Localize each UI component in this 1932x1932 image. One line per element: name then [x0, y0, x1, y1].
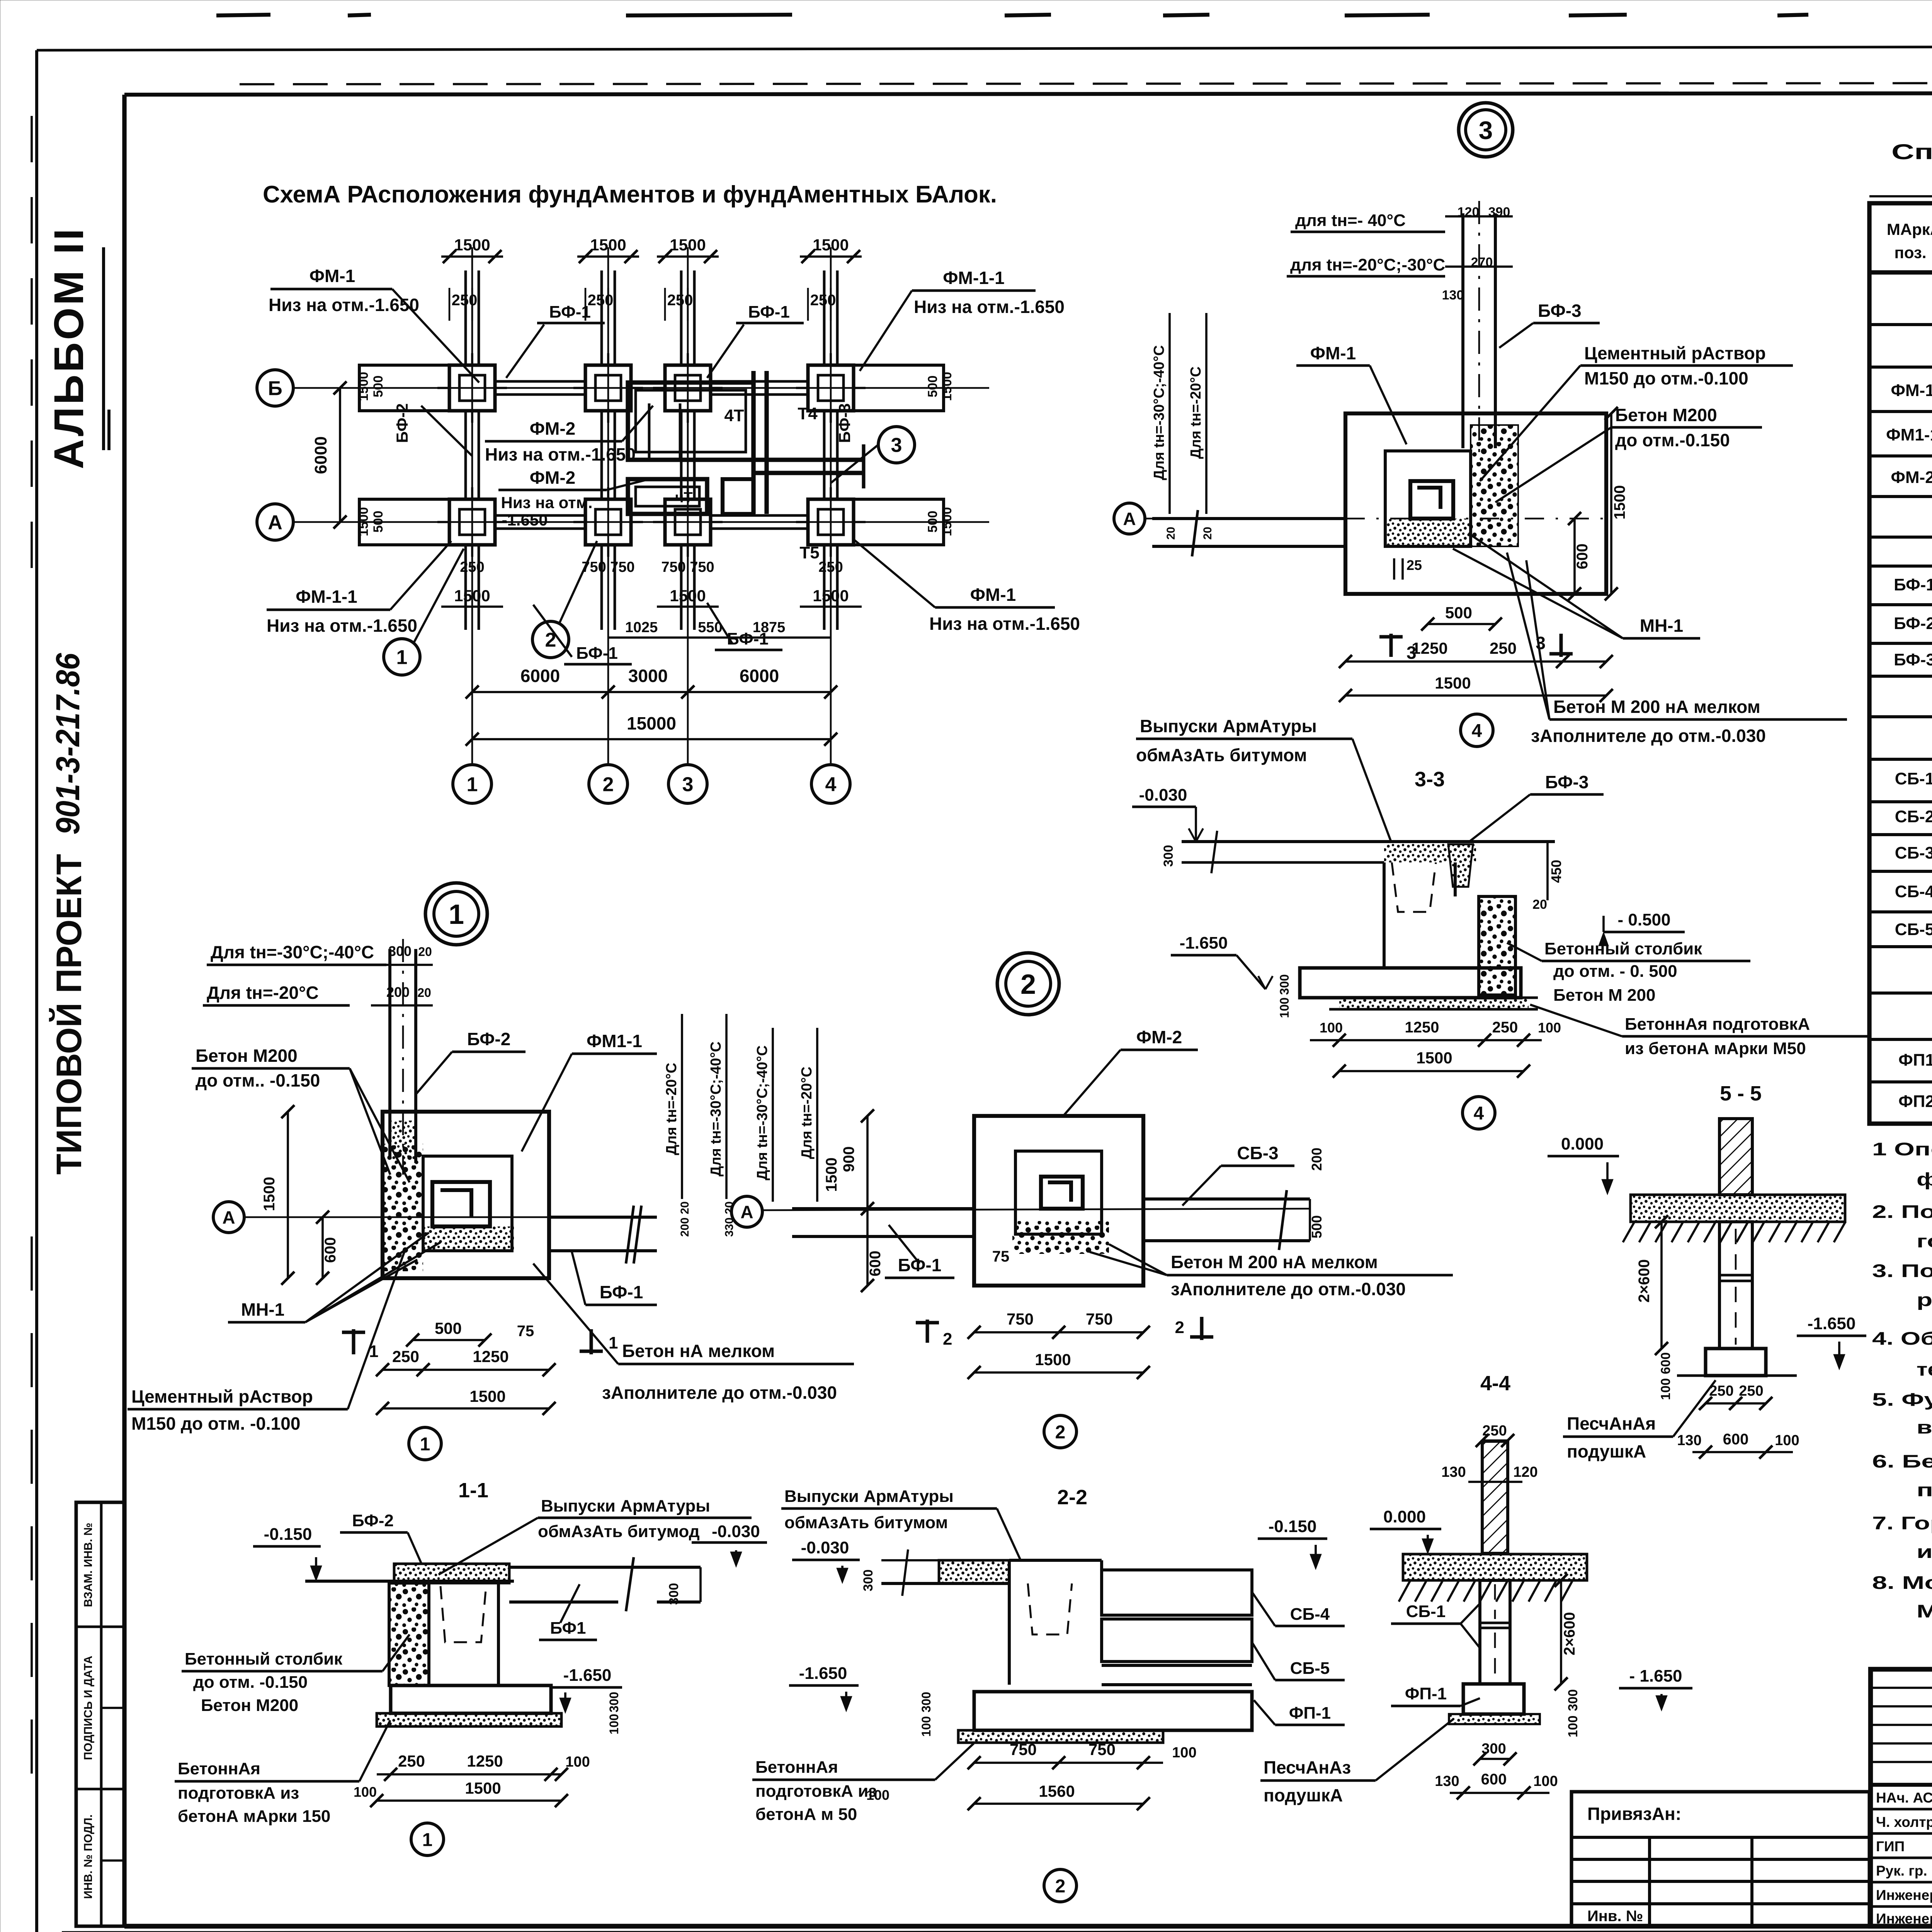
- svg-text:1250: 1250: [473, 1347, 509, 1366]
- svg-text:зАполнителе до отм.-0.030: зАполнителе до отм.-0.030: [1531, 726, 1766, 746]
- svg-text:20: 20: [1165, 527, 1177, 539]
- plan vertical axis 2: [607, 247, 609, 765]
- svg-text:Бетон М200: Бетон М200: [196, 1046, 298, 1066]
- svg-text:БФ-3: БФ-3: [1538, 301, 1582, 321]
- svg-text:Цементный рАствор: Цементный рАствор: [131, 1386, 313, 1406]
- svg-text:15000: 15000: [627, 713, 676, 733]
- svg-text:-0.150: -0.150: [264, 1525, 312, 1544]
- spec table horizontal row lines: [1869, 323, 1932, 326]
- svg-text:БетоннАя: БетоннАя: [755, 1758, 838, 1777]
- svg-text:БФ-1: БФ-1: [898, 1255, 942, 1275]
- svg-text:БФ-1: БФ-1: [549, 303, 591, 321]
- detail 3 section mark 3 left: [1389, 634, 1393, 657]
- section 3-3 beam pocket dashed: [1392, 862, 1436, 912]
- svg-text:Т5: Т5: [799, 543, 819, 562]
- svg-text:5. ФундАментные бАлки: 5. ФундАментные бАлки уклАдывАть нА слой…: [1872, 1389, 1932, 1410]
- svg-text:7. ГоризснтАльную гидроизо: 7. ГоризснтАльную гидроизоляцию стен вып…: [1872, 1513, 1932, 1533]
- plan foundation ФМ bottom row axis 2: [585, 499, 631, 545]
- svg-text:-0.030: -0.030: [801, 1538, 849, 1557]
- svg-text:Бетон М 200 нА мелком: Бетон М 200 нА мелком: [1553, 697, 1760, 717]
- svg-text:250: 250: [1490, 639, 1517, 657]
- plan vertical axis 3: [687, 247, 689, 765]
- scan artifact dashes along top edge: [216, 15, 270, 15]
- svg-text:200: 200: [1309, 1148, 1325, 1171]
- svg-text:130: 130: [1677, 1432, 1701, 1449]
- svg-text:3: 3: [682, 774, 694, 796]
- svg-text:до отм.-0.150: до отм.-0.150: [1615, 430, 1730, 450]
- detail 2 dimensions left 900 1500: [866, 1116, 869, 1286]
- title block left grid upper: [1871, 1783, 1932, 1787]
- svg-text:БФ-2: БФ-2: [467, 1029, 511, 1049]
- svg-text:ФМ-1: ФМ-1: [1891, 381, 1932, 400]
- section 5-5 footing: [1706, 1349, 1766, 1376]
- svg-text:4Т: 4Т: [724, 406, 744, 425]
- section 1-1 top speckled band: [394, 1564, 509, 1583]
- svg-text:1500: 1500: [940, 507, 954, 536]
- svg-text:подготовкА из: подготовкА из: [178, 1784, 299, 1803]
- detail 1 dimension 250 1250: [383, 1369, 549, 1371]
- svg-text:Бетон М200: Бетон М200: [201, 1696, 298, 1715]
- detail 1 dimension 1500: [383, 1407, 549, 1410]
- svg-text:1500: 1500: [940, 372, 954, 401]
- section 1-1 dimension 1500: [377, 1799, 561, 1802]
- detail 1 left dimension 1500: [287, 1112, 289, 1278]
- svg-text:ФМ-2: ФМ-2: [1891, 468, 1932, 487]
- detail 1 right rotated temperature labels: [681, 1014, 683, 1199]
- svg-text:СБ-4: СБ-4: [1290, 1605, 1330, 1624]
- svg-text:-0.030: -0.030: [712, 1522, 760, 1541]
- svg-text:1875: 1875: [753, 619, 786, 636]
- section 5-5 column hatched top: [1719, 1119, 1752, 1195]
- svg-text:200 20: 200 20: [679, 1201, 691, 1237]
- svg-text:2×600: 2×600: [1636, 1259, 1653, 1303]
- svg-text:Для tн=-30°С;-40°С: Для tн=-30°С;-40°С: [211, 942, 374, 962]
- svg-text:реть уплотненного пескА: реть уплотненного пескА h=100 мм: [1917, 1289, 1932, 1310]
- svg-text:Бетон М 200 нА мелком: Бетон М 200 нА мелком: [1171, 1252, 1378, 1272]
- svg-text:-1.650: -1.650: [1808, 1314, 1856, 1333]
- svg-text:500: 500: [371, 511, 386, 533]
- svg-text:А: А: [1123, 509, 1136, 529]
- title block name rows: [1871, 1808, 1932, 1811]
- svg-text:2: 2: [1055, 1422, 1066, 1442]
- svg-text:Для tн=-20°С: Для tн=-20°С: [663, 1063, 680, 1155]
- svg-text:БФ-2: БФ-2: [352, 1511, 394, 1530]
- svg-text:1500: 1500: [356, 372, 371, 401]
- spec table header row texts: [1869, 270, 1932, 274]
- svg-text:270: 270: [1471, 255, 1493, 270]
- svg-text:1500: 1500: [469, 1387, 505, 1405]
- section 5-5 dimension 130 600 100: [1692, 1451, 1793, 1453]
- svg-text:СБ-5: СБ-5: [1290, 1659, 1330, 1678]
- svg-text:М 100. Объем бетонА: М 100. Объем бетонА нА монолитные учАстк…: [1917, 1601, 1932, 1621]
- svg-text:2: 2: [1055, 1876, 1066, 1896]
- svg-text:4: 4: [825, 774, 837, 796]
- svg-text:НАч. АСО: НАч. АСО: [1876, 1790, 1932, 1806]
- svg-text:Для tн=-30°С;-40°С: Для tн=-30°С;-40°С: [1151, 345, 1167, 480]
- detail 3 leader circle 4 bottom: [1461, 714, 1493, 747]
- svg-text:СБ-1: СБ-1: [1406, 1602, 1446, 1621]
- svg-text:600: 600: [322, 1237, 339, 1263]
- svg-text:20: 20: [417, 986, 431, 1000]
- svg-text:Выпуски АрмАтуры: Выпуски АрмАтуры: [784, 1487, 954, 1506]
- svg-text:300: 300: [607, 1692, 621, 1712]
- svg-text:подушкА: подушкА: [1567, 1441, 1646, 1461]
- section 2-2 dimension 1500: [974, 1803, 1143, 1805]
- svg-text:3: 3: [891, 434, 902, 457]
- section 3-3 bottom circle 4: [1463, 1097, 1495, 1129]
- svg-text:Бетон М 200: Бетон М 200: [1553, 986, 1655, 1005]
- svg-text:250: 250: [452, 292, 478, 309]
- svg-text:20: 20: [418, 945, 432, 959]
- section 4-4 footing: [1463, 1684, 1524, 1714]
- svg-text:СхемА РАсположения фундАмен: СхемА РАсположения фундАментов и фундАме…: [263, 181, 997, 208]
- svg-text:Выпуски АрмАтуры: Выпуски АрмАтуры: [1140, 716, 1317, 736]
- svg-text:120: 120: [1458, 205, 1480, 219]
- section 2-2 dimension chain 750 750 100: [974, 1762, 1163, 1764]
- svg-text:0.000: 0.000: [1561, 1134, 1604, 1153]
- plan main dimension chain 6000 3000 6000: [472, 691, 831, 693]
- detail 3 right dimension 600: [1573, 519, 1576, 594]
- plan foundation ФМ bottom row axis 4: [808, 499, 854, 545]
- svg-text:бетонА м 50: бетонА м 50: [755, 1805, 857, 1824]
- plan foundation beams БФ along axis А: [495, 514, 585, 517]
- svg-text:ИНВ. № ПОДЛ.: ИНВ. № ПОДЛ.: [82, 1815, 95, 1899]
- svg-text:БетоннАя: БетоннАя: [178, 1759, 260, 1778]
- svg-text:600: 600: [1723, 1431, 1749, 1448]
- svg-text:БФ-1: БФ-1: [600, 1282, 643, 1302]
- svg-text:750: 750: [1086, 1310, 1113, 1328]
- plan bottom axis circle 2: [589, 765, 628, 803]
- svg-text:1560: 1560: [1039, 1782, 1075, 1800]
- plan dimension 6000 left rotated: [339, 388, 341, 522]
- svg-text:Выпуски АрмАтуры: Выпуски АрмАтуры: [541, 1497, 710, 1515]
- plan foundation beams БФ along axis Б: [495, 380, 585, 383]
- svg-text:ФМ1-1: ФМ1-1: [587, 1031, 642, 1051]
- section 3-3 dimension 1500: [1339, 1070, 1524, 1072]
- svg-text:БФ-3: БФ-3: [835, 403, 854, 443]
- svg-text:500: 500: [1445, 604, 1472, 622]
- plan foundation ФМ bottom row axis 3: [665, 499, 711, 545]
- svg-text:901-3-217.86: 901-3-217.86: [49, 653, 87, 835]
- svg-text:1250: 1250: [1412, 639, 1447, 657]
- svg-text:6000: 6000: [740, 666, 779, 686]
- svg-text:Для tн=-20°С: Для tн=-20°С: [799, 1066, 815, 1159]
- detail 2 beam СБ-3 right: [1143, 1197, 1310, 1201]
- svg-text:А: А: [268, 512, 282, 534]
- svg-text:3: 3: [1479, 116, 1493, 145]
- svg-text:до отм.. -0.150: до отм.. -0.150: [196, 1070, 320, 1090]
- svg-text:А: А: [740, 1202, 753, 1222]
- plan foundation ФМ top row axis 3: [665, 365, 711, 411]
- svg-text:4: 4: [1474, 1103, 1484, 1124]
- detail 2 axis А circle: [731, 1196, 762, 1227]
- detail 1 axis line: [244, 1216, 653, 1218]
- svg-text:750: 750: [1010, 1740, 1037, 1759]
- svg-text:1500: 1500: [1611, 485, 1628, 520]
- svg-text:3-3: 3-3: [1415, 768, 1445, 791]
- svg-text:6000: 6000: [311, 436, 330, 474]
- svg-text:100: 100: [1320, 1020, 1343, 1036]
- svg-text:1500: 1500: [454, 236, 490, 254]
- svg-text:ПесчАнАя: ПесчАнАя: [1567, 1413, 1656, 1434]
- svg-text:300: 300: [1566, 1689, 1580, 1711]
- detail 1 beam БФ-2 vertical: [388, 949, 391, 1159]
- svg-text:ФМ1-1: ФМ1-1: [1886, 425, 1932, 444]
- svg-text:450: 450: [1548, 860, 1564, 883]
- svg-text:для tн=- 40°С: для tн=- 40°С: [1295, 211, 1406, 230]
- svg-text:300: 300: [919, 1692, 933, 1712]
- plan top dimension 1500 labels: [441, 255, 503, 258]
- svg-text:ПривязАн:: ПривязАн:: [1587, 1804, 1681, 1824]
- svg-text:БФ-2: БФ-2: [393, 403, 411, 443]
- svg-text:100: 100: [1277, 997, 1291, 1018]
- plan vertical axis 1: [471, 247, 473, 765]
- plan axis circle Б: [257, 370, 293, 406]
- svg-text:8. Монолитные учАстки: 8. Монолитные учАстки между блокАми выпо…: [1872, 1572, 1932, 1593]
- svg-text:600: 600: [867, 1251, 884, 1277]
- svg-text:1: 1: [369, 1342, 378, 1361]
- svg-text:250: 250: [818, 559, 843, 575]
- svg-text:А: А: [222, 1207, 235, 1228]
- svg-text:2-2: 2-2: [1057, 1486, 1087, 1509]
- plan leader circle 3: [878, 427, 915, 463]
- svg-text:Т4: Т4: [798, 404, 818, 423]
- svg-text:М150 до отм. -0.100: М150 до отм. -0.100: [131, 1413, 300, 1434]
- svg-text:250: 250: [392, 1347, 419, 1366]
- svg-text:СБ-2: СБ-2: [1895, 807, 1932, 826]
- detail 3 dimension 1500 bottom: [1345, 694, 1606, 697]
- svg-text:для tн=-20°С;-30°С: для tн=-20°С;-30°С: [1290, 255, 1445, 274]
- section 4-4 dimension 2x600: [1560, 1580, 1562, 1684]
- svg-text:250: 250: [667, 292, 693, 309]
- svg-text:Бетонный столбик: Бетонный столбик: [185, 1650, 343, 1668]
- plan foundation ФМ bottom row axis 1: [449, 499, 495, 545]
- svg-text:1: 1: [467, 774, 478, 796]
- svg-text:обмАзАть битумод: обмАзАть битумод: [538, 1522, 700, 1541]
- svg-text:из цементного р-рА: из цементного р-рА состАвА 1:2, толщиной…: [1917, 1541, 1932, 1562]
- svg-text:2: 2: [1020, 969, 1036, 1000]
- svg-text:ГИП: ГИП: [1876, 1838, 1905, 1854]
- detail 2 dimension 1500: [974, 1371, 1143, 1374]
- plan bottom axis circle 4: [811, 765, 850, 803]
- svg-text:250: 250: [1739, 1383, 1763, 1399]
- detail 2 marker circle: [997, 953, 1059, 1015]
- svg-text:зАполнителе до отм.-0.030: зАполнителе до отм.-0.030: [1171, 1279, 1406, 1299]
- svg-text:Низ на отм.: Низ на отм.: [501, 493, 592, 512]
- svg-text:ФМ-1: ФМ-1: [1310, 343, 1356, 363]
- plan foundation extension rectangles right col4: [854, 365, 944, 411]
- section 1-1 prep layer: [377, 1713, 561, 1726]
- title block outer: [1871, 1669, 1932, 1926]
- detail 1 spill hatch above: [390, 1121, 416, 1159]
- section 2-2 slab left: [881, 1582, 1009, 1585]
- svg-text:100: 100: [565, 1754, 590, 1770]
- plan vertical beams on column axes: [464, 270, 467, 365]
- outer sheet border top: [37, 46, 1932, 50]
- svg-text:Бетон М200: Бетон М200: [1615, 405, 1717, 425]
- svg-text:-1.650: -1.650: [799, 1664, 847, 1683]
- svg-text:300: 300: [1277, 974, 1291, 995]
- section 4-4 column hatched top: [1482, 1441, 1508, 1553]
- svg-text:Инженер: Инженер: [1876, 1911, 1932, 1927]
- plan leader circle 1: [384, 639, 420, 675]
- section 4-4 block column: [1480, 1580, 1510, 1684]
- svg-text:из бетонА мАрки М50: из бетонА мАрки М50: [1625, 1039, 1806, 1058]
- svg-text:БетоннАя подготовкА: БетоннАя подготовкА: [1625, 1015, 1810, 1034]
- section 4-4 dimension 130 600 100: [1450, 1792, 1549, 1794]
- svg-text:ФМ-2: ФМ-2: [530, 418, 575, 439]
- section 3-3 beam БФ-3 cross piece: [1448, 844, 1473, 887]
- section 1-1 beam БФ-1 right: [509, 1566, 701, 1569]
- svg-text:1500: 1500: [813, 587, 849, 605]
- section 1-1 foundation step: [391, 1685, 551, 1713]
- svg-text:БФ-2: БФ-2: [1894, 614, 1932, 633]
- svg-text:-0.150: -0.150: [1269, 1517, 1317, 1536]
- svg-text:3. Под всеми ленточными: 3. Под всеми ленточными фундАментАми из …: [1872, 1260, 1932, 1281]
- section 1-1 ground line: [305, 1580, 514, 1583]
- svg-text:ФП1: ФП1: [1898, 1051, 1932, 1070]
- svg-text:ФП-1: ФП-1: [1289, 1704, 1331, 1723]
- section 5-5 dimension 250 250: [1706, 1402, 1766, 1405]
- svg-text:130: 130: [1442, 288, 1464, 303]
- svg-text:600: 600: [1481, 1771, 1507, 1788]
- plan central wall cluster between axes 2 and 3: [628, 383, 753, 460]
- svg-text:тельного мусорА, слоями не: тельного мусорА, слоями не более 200мм с…: [1917, 1359, 1932, 1379]
- detail 3 marker circle: [1459, 103, 1513, 157]
- spec table outer border: [1869, 195, 1932, 197]
- svg-text:Для tн=-20°С: Для tн=-20°С: [207, 983, 319, 1003]
- svg-text:6. Бетонные блоки ук: 6. Бетонные блоки уклАдывАть нА цементно…: [1872, 1451, 1932, 1471]
- section 4-4 ground slab speckled: [1403, 1554, 1587, 1580]
- svg-text:Низ на отм.-1.650: Низ на отм.-1.650: [267, 616, 417, 636]
- svg-text:4. ОбрАтную зАсыпку про: 4. ОбрАтную зАсыпку производить грунтом …: [1872, 1328, 1932, 1349]
- detail 2 concrete speckle zone: [1012, 1221, 1109, 1254]
- svg-text:- 0.500: - 0.500: [1618, 910, 1671, 929]
- scan artifact dashed left margin line: [31, 116, 33, 580]
- svg-text:СБ-4: СБ-4: [1895, 882, 1932, 901]
- section 2-2 footing: [974, 1692, 1252, 1730]
- svg-text:до отм. -0.150: до отм. -0.150: [193, 1673, 308, 1692]
- svg-text:100: 100: [1658, 1378, 1673, 1400]
- detail 3 axis А circle: [1114, 503, 1145, 534]
- detail 1 concrete speckle zones: [383, 1144, 423, 1271]
- detail 2 beam БФ-1 from left: [792, 1207, 974, 1210]
- svg-text:2×600: 2×600: [1561, 1612, 1578, 1655]
- svg-text:1500: 1500: [670, 587, 706, 605]
- svg-text:подготовкА из: подготовкА из: [755, 1782, 877, 1801]
- svg-text:обмАзАть битумом: обмАзАть битумом: [784, 1513, 948, 1532]
- svg-text:2: 2: [943, 1330, 952, 1349]
- svg-text:Для tн=-20°С: Для tн=-20°С: [1188, 366, 1204, 459]
- svg-text:БФ-3: БФ-3: [1894, 650, 1932, 669]
- svg-text:зАполнителе до отм.-0.030: зАполнителе до отм.-0.030: [602, 1383, 837, 1403]
- svg-text:ворА М 150 толщиной 20м: ворА М 150 толщиной 20мм.: [1917, 1417, 1932, 1437]
- svg-text:ФП-1: ФП-1: [1405, 1684, 1447, 1703]
- svg-text:обмАзАть битумом: обмАзАть битумом: [1136, 745, 1307, 765]
- detail 2 dimension 750 750: [974, 1331, 1143, 1333]
- svg-text:готовку из бетонА М 50: готовку из бетонА М 50 толщиной 100 мм.: [1917, 1231, 1932, 1251]
- plan bottom axis circle 1: [453, 765, 492, 803]
- svg-text:750: 750: [1088, 1740, 1116, 1759]
- detail 3 concrete speckle zone: [1471, 425, 1518, 546]
- svg-text:1-1: 1-1: [458, 1479, 488, 1502]
- detail 2 axis line: [762, 1209, 1310, 1210]
- svg-text:ФМ-1: ФМ-1: [310, 266, 355, 286]
- section 3-3 concrete pillar speckled: [1479, 896, 1515, 995]
- svg-text:-1.650: -1.650: [502, 511, 548, 529]
- svg-text:ФМ-1-1: ФМ-1-1: [943, 268, 1004, 288]
- outer sheet border bottom thin companion: [62, 1931, 1932, 1932]
- svg-text:25: 25: [1406, 557, 1422, 573]
- svg-text:1500: 1500: [590, 236, 626, 254]
- svg-text:1: 1: [422, 1830, 433, 1850]
- svg-text:20: 20: [1532, 897, 1547, 912]
- plan leader circle 2: [532, 621, 569, 658]
- svg-text:1500: 1500: [261, 1177, 278, 1211]
- svg-text:120: 120: [1513, 1464, 1537, 1480]
- plan total dimension 15000: [472, 738, 831, 740]
- svg-text:фундАментАми под колонны: фундАментАми под колонны в той же опАлуб…: [1917, 1169, 1932, 1189]
- svg-text:1500: 1500: [670, 236, 706, 254]
- svg-text:СБ-5: СБ-5: [1895, 920, 1932, 939]
- svg-text:100: 100: [1533, 1773, 1558, 1789]
- svg-text:300: 300: [667, 1583, 681, 1605]
- svg-text:1500: 1500: [465, 1779, 501, 1797]
- detail 2 section mark 2 left: [926, 1320, 929, 1343]
- svg-text:5 - 5: 5 - 5: [1720, 1082, 1762, 1105]
- svg-text:Цементный рАствор: Цементный рАствор: [1584, 343, 1766, 363]
- svg-text:1 Опоры под фундАментные: 1 Опоры под фундАментные бАлки бетониров…: [1872, 1139, 1932, 1159]
- svg-text:перевязкой швов . не: перевязкой швов . не менее 300 мм.: [1917, 1480, 1932, 1500]
- detail 3 axis line: [1145, 518, 1345, 520]
- detail 2 foundation outline: [974, 1116, 1143, 1286]
- detail 1 foundation outline: [383, 1112, 549, 1278]
- svg-text:Для tн=-30°С;-40°С: Для tн=-30°С;-40°С: [754, 1045, 770, 1180]
- detail 1 axis А circle: [213, 1202, 244, 1233]
- svg-text:Ч. холтр.: Ч. холтр.: [1876, 1814, 1932, 1830]
- svg-text:Инв. №: Инв. №: [1587, 1908, 1643, 1925]
- svg-text:Бетонный столбик: Бетонный столбик: [1544, 939, 1702, 958]
- svg-text:ВЗАМ. ИНВ. №: ВЗАМ. ИНВ. №: [82, 1523, 95, 1607]
- svg-text:-0.030: -0.030: [1139, 786, 1187, 804]
- section 4-4 ground hatch: [1399, 1580, 1410, 1602]
- outer sheet border left: [35, 50, 38, 1932]
- svg-text:чТ: чТ: [675, 490, 692, 506]
- detail 3 column core: [1410, 481, 1453, 519]
- svg-text:Низ на отм.-1.650: Низ на отм.-1.650: [269, 295, 419, 315]
- svg-text:500: 500: [1309, 1215, 1325, 1238]
- svg-text:750: 750: [1007, 1310, 1034, 1328]
- svg-text:БФ-1: БФ-1: [748, 303, 790, 321]
- detail 3 foundation outline ФМ-1 plan: [1345, 413, 1606, 594]
- svg-text:600: 600: [1574, 544, 1591, 570]
- outer sheet border top second dashed line: [240, 83, 1932, 84]
- svg-text:1: 1: [449, 899, 464, 930]
- detail 3 right dimension 1500: [1610, 413, 1612, 594]
- svg-text:1500: 1500: [356, 507, 371, 536]
- left bottom stamp table: [76, 1502, 124, 1926]
- detail 1 bottom circle 1: [409, 1427, 441, 1460]
- svg-text:1250: 1250: [1405, 1019, 1439, 1036]
- plan axis line Б: [293, 387, 989, 389]
- svg-text:2: 2: [603, 774, 614, 796]
- detail 1 left dimension 600: [321, 1217, 324, 1278]
- svg-text:2. Под монолитными фундАм: 2. Под монолитными фундАментАми выполнит…: [1872, 1201, 1932, 1222]
- svg-text:2: 2: [1175, 1318, 1184, 1337]
- svg-text:1500: 1500: [1435, 674, 1471, 692]
- svg-text:ФП2: ФП2: [1898, 1092, 1932, 1111]
- svg-text:500: 500: [925, 376, 940, 398]
